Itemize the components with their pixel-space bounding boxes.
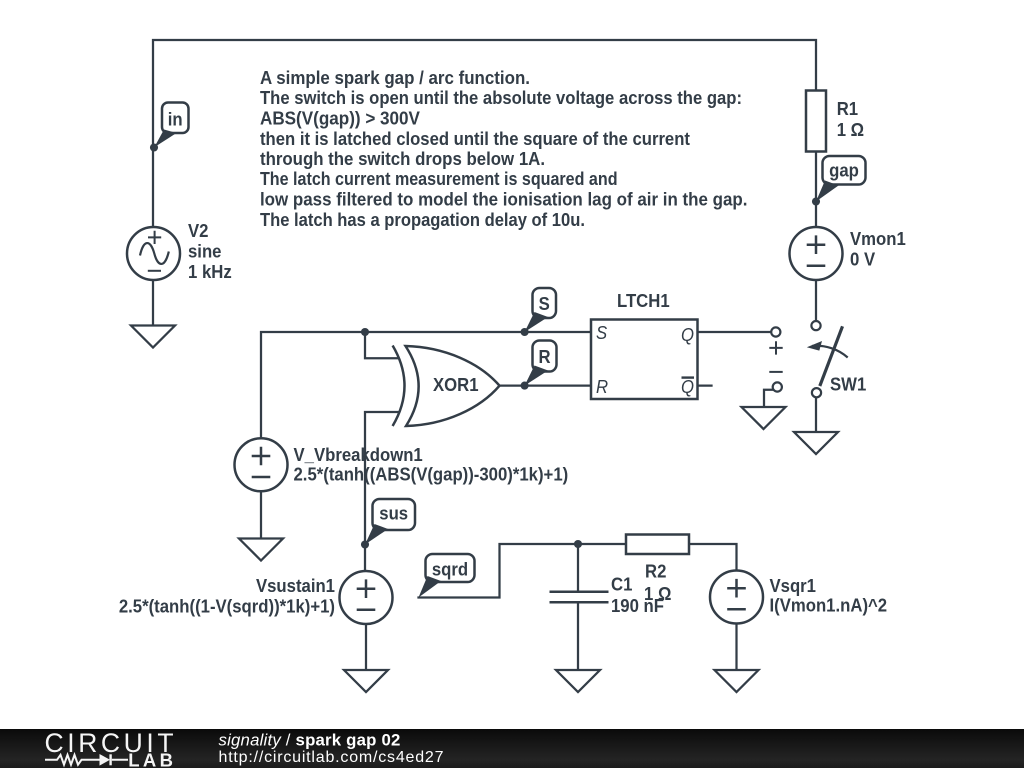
svg-text:signality / spark gap 02: signality / spark gap 02 xyxy=(219,730,401,749)
svg-text:1 kHz: 1 kHz xyxy=(188,261,232,282)
svg-text:then it is latched closed unti: then it is latched closed until the squa… xyxy=(260,128,690,149)
svg-text:V_Vbreakdown1: V_Vbreakdown1 xyxy=(294,444,423,465)
svg-text:S: S xyxy=(539,293,550,314)
svg-text:The switch is open until the a: The switch is open until the absolute vo… xyxy=(260,87,742,108)
svg-text:sqrd: sqrd xyxy=(432,559,468,580)
svg-text:Vmon1: Vmon1 xyxy=(850,228,906,249)
svg-text:2.5*(tanh((ABS(V(gap))-300)*1k: 2.5*(tanh((ABS(V(gap))-300)*1k)+1) xyxy=(294,464,569,485)
svg-text:A simple spark gap / arc funct: A simple spark gap / arc function. xyxy=(260,67,530,88)
svg-text:Q: Q xyxy=(681,324,694,345)
svg-text:I(Vmon1.nA)^2: I(Vmon1.nA)^2 xyxy=(769,595,887,616)
svg-text:sine: sine xyxy=(188,241,222,262)
svg-text:ABS(V(gap)) > 300V: ABS(V(gap)) > 300V xyxy=(260,108,420,129)
svg-text:XOR1: XOR1 xyxy=(433,374,479,395)
svg-text:LTCH1: LTCH1 xyxy=(617,290,670,311)
svg-text:R: R xyxy=(538,346,550,367)
svg-text:R1: R1 xyxy=(837,98,859,119)
svg-text:The latch current measurement: The latch current measurement is squared… xyxy=(260,168,618,189)
svg-text:S: S xyxy=(596,322,607,343)
svg-text:http://circuitlab.com/cs4ed27: http://circuitlab.com/cs4ed27 xyxy=(219,749,444,766)
svg-text:LAB: LAB xyxy=(128,750,176,768)
svg-text:Q: Q xyxy=(681,376,694,397)
svg-text:0 V: 0 V xyxy=(850,249,875,270)
svg-text:low pass filtered to model the: low pass filtered to model the ionisatio… xyxy=(260,189,747,210)
svg-text:sus: sus xyxy=(379,503,408,524)
svg-text:C1: C1 xyxy=(611,574,633,595)
svg-text:The latch has a propagation de: The latch has a propagation delay of 10u… xyxy=(260,209,585,230)
svg-text:1 Ω: 1 Ω xyxy=(837,119,864,140)
svg-text:SW1: SW1 xyxy=(830,374,866,395)
svg-text:R: R xyxy=(596,376,608,397)
svg-text:in: in xyxy=(168,109,183,130)
svg-text:R2: R2 xyxy=(645,561,667,582)
svg-text:gap: gap xyxy=(829,160,859,181)
svg-text:2.5*(tanh((1-V(sqrd))*1k)+1): 2.5*(tanh((1-V(sqrd))*1k)+1) xyxy=(119,596,335,617)
svg-text:Vsqr1: Vsqr1 xyxy=(769,575,816,596)
svg-text:Vsustain1: Vsustain1 xyxy=(256,575,335,596)
svg-text:through the switch drops below: through the switch drops below 1A. xyxy=(260,148,545,169)
svg-text:V2: V2 xyxy=(188,220,209,241)
svg-text:1 Ω: 1 Ω xyxy=(644,583,671,604)
